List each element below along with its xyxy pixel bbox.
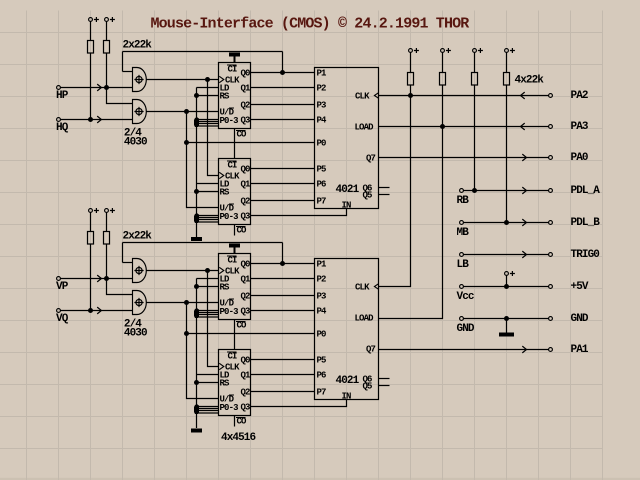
svg-text:P1: P1 — [317, 69, 328, 79]
wire P0 preset lower 4516 ch2 — [197, 406, 219, 408]
node Vcc connector circle — [460, 285, 464, 289]
svg-text:Q7: Q7 — [366, 154, 376, 164]
svg-text:CLK: CLK — [355, 92, 370, 102]
junction dot Q0 feedback ch2 — [280, 261, 285, 266]
wire LD/RS/P ground rail ch1 — [196, 88, 198, 238]
svg-text:P7: P7 — [317, 197, 327, 207]
wire RS lower 4516 ch1 — [197, 191, 219, 193]
wire LD lower 4516 ch1 — [197, 183, 219, 185]
svg-text:P2: P2 — [317, 275, 327, 285]
svg-text:4021: 4021 — [336, 375, 360, 387]
svg-text:Q7: Q7 — [366, 345, 376, 355]
resistor R3c 22k pull-up — [472, 73, 478, 86]
wire RS upper 4516 ch2 — [197, 286, 219, 288]
node +5V connector circle — [549, 285, 553, 289]
svg-text:CI: CI — [228, 65, 238, 75]
wire +5V supply stem — [506, 275, 508, 286]
wire TRIG0 net from LB — [463, 254, 548, 256]
junction dot U/D net ch1 — [184, 109, 189, 114]
wire Q0 upper 4516 to P1 ch2 — [251, 263, 315, 265]
wire LD upper 4516 ch2 — [197, 278, 219, 280]
junction dot RS1 ground rail — [194, 93, 199, 98]
wire supply2 stem ch1 — [106, 21, 108, 40]
wire GND net — [463, 318, 548, 320]
wire CO upper 4516 to CI lower ch1 — [234, 129, 236, 159]
bottom shade strip — [0, 478, 640, 480]
svg-text:IN: IN — [342, 200, 352, 210]
junction dot RS2 ground rail — [194, 189, 199, 194]
wire CLK net vertical to lower 4516 ch2 — [208, 271, 219, 367]
clock wedge CLK pin 4516 U2 — [219, 172, 224, 178]
junction dot RS4 ground rail — [194, 380, 199, 385]
svg-text:GND: GND — [457, 323, 475, 335]
node LB connector circle — [460, 253, 464, 257]
svg-text:Q2: Q2 — [241, 388, 251, 398]
wire 22k feedback net horizontal ch2 — [123, 242, 283, 244]
svg-text:P6: P6 — [317, 180, 327, 190]
wire Q6 stub 4021-2 — [379, 378, 390, 380]
svg-text:PA2: PA2 — [571, 90, 588, 102]
svg-text:Mouse-Interface (CMOS) © 24.2.: Mouse-Interface (CMOS) © 24.2.1991 THOR — [151, 16, 470, 33]
junction dot HP branch — [104, 85, 109, 90]
svg-text:RS: RS — [220, 92, 231, 102]
svg-text:P4: P4 — [317, 116, 328, 126]
svg-text:CI: CI — [228, 256, 238, 266]
wire Q1 upper 4516 to P2 ch2 — [251, 278, 315, 280]
wire CO stub lower 4516 ch1 — [234, 225, 236, 236]
resistor R2a 22k (VP pull-up) — [88, 232, 94, 245]
wire Q5 stub 4021-2 — [379, 385, 390, 387]
wire RS upper 4516 ch1 — [197, 95, 219, 97]
ground bar channel 1 — [191, 237, 202, 241]
wire Q3 upper 4516 to P4 ch2 — [251, 310, 315, 312]
wire PA3 net (4021-1 LOAD) — [379, 126, 549, 128]
svg-text:P3: P3 — [317, 101, 327, 111]
wire XOR gate1 output to CLK ch1 — [147, 79, 219, 81]
supply symbol +5V above R3c — [473, 48, 483, 53]
svg-text:4030: 4030 — [124, 137, 147, 149]
junction dot CLK net ch1 — [205, 77, 210, 82]
svg-text:RS: RS — [220, 188, 231, 198]
wire supply1 stem ch1 — [90, 21, 92, 40]
wire feedback drop to XOR gate1 input ch1 — [122, 52, 124, 72]
wire phase-A input line ch1 — [60, 87, 133, 89]
supply symbol +5V above R2b — [105, 208, 115, 213]
wire CO stub lower 4516 ch2 — [234, 416, 236, 427]
arrow on PA2 net (in) — [521, 92, 525, 99]
svg-text:+5V: +5V — [571, 281, 589, 293]
wire Q0 lower 4516 to P5 ch1 — [251, 168, 315, 170]
svg-text:P6: P6 — [317, 371, 327, 381]
arrow on PA1 net (out) — [522, 346, 526, 353]
wire XOR gate1 output to CLK ch2 — [147, 270, 219, 272]
svg-text:CLK: CLK — [355, 283, 370, 293]
resistor R2b 22k (VQ pull-up) — [104, 232, 110, 245]
XOR gate G1 (HP/HQ clock) (4030) — [133, 68, 147, 92]
svg-text:Vcc: Vcc — [457, 291, 474, 303]
junction dot U/D net ch2 — [184, 300, 189, 305]
wire CO upper 4516 to CI lower ch2 — [234, 320, 236, 350]
wire pull-up R3 to PDL_A — [474, 85, 476, 191]
wire Q1 lower 4516 to P6 ch1 — [251, 183, 315, 185]
supply symbol +5V above R1a — [89, 17, 99, 22]
arrow on PA3 net (in) — [521, 123, 525, 130]
resistor R1a 22k (HP pull-up) — [88, 41, 94, 54]
svg-text:Q3: Q3 — [241, 307, 251, 317]
arrow on HP input line — [97, 84, 101, 91]
supply symbol +5V above R1b — [105, 17, 115, 22]
junction dot RS3 ground rail — [194, 284, 199, 289]
node PA0 connector circle — [549, 156, 553, 160]
wire resistor R1a bottom to quadrature-B dot — [90, 53, 92, 120]
svg-text:P5: P5 — [317, 356, 327, 366]
wire supply1 stem ch2 — [90, 212, 92, 231]
svg-text:CO: CO — [237, 226, 248, 236]
wire supply stem pull-up x=506.5 — [506, 52, 508, 72]
wire XOR gate1 top input ch2 — [123, 262, 134, 264]
CI supply flag above U1 — [229, 53, 240, 57]
P0-3 bundle blob U1 — [194, 118, 199, 128]
svg-text:Q0: Q0 — [241, 260, 251, 270]
wire Q3 lower 4516 to IN of 4021 ch2 — [251, 400, 347, 407]
svg-text:P7: P7 — [317, 388, 327, 398]
wire pull-up R1 / 4021-2 CLK net — [379, 85, 411, 287]
svg-text:P0-3: P0-3 — [220, 403, 239, 413]
svg-text:Q0: Q0 — [241, 69, 251, 79]
svg-text:Q2: Q2 — [241, 197, 251, 207]
overlines for CI/CO/U-D labels — [227, 65, 246, 418]
wire Q2 upper 4516 to P3 ch1 — [251, 104, 315, 106]
junction dot PDL_B/R pull-up — [504, 220, 509, 225]
svg-text:2x22k: 2x22k — [123, 231, 153, 243]
wire Q3 upper 4516 to P4 ch1 — [251, 119, 315, 121]
wire resistor R2a bottom to quadrature-B dot — [90, 244, 92, 311]
counter U2 4516 (lower, channel 1) — [219, 159, 251, 225]
svg-text:Q2: Q2 — [241, 292, 251, 302]
svg-text:RS: RS — [220, 283, 231, 293]
wire CLK net vertical to lower 4516 ch1 — [208, 80, 219, 176]
svg-text:P3: P3 — [317, 292, 327, 302]
wire Q2 upper 4516 to P3 ch2 — [251, 295, 315, 297]
svg-text:LOAD: LOAD — [355, 123, 375, 133]
junction dot HQ pull-up — [88, 117, 93, 122]
svg-text:RB: RB — [457, 195, 470, 207]
P0-3 bundle blob U3 — [194, 309, 199, 319]
svg-text:Q1: Q1 — [241, 180, 252, 190]
wire feedback drop to Q0 net ch2 — [282, 243, 284, 264]
svg-text:P2: P2 — [317, 84, 327, 94]
svg-text:CO: CO — [237, 130, 248, 140]
clock wedge CLK pin 4021 U5 — [374, 93, 378, 98]
wire pull-up R4 to PDL_B — [506, 85, 508, 223]
wire phase-A input line ch2 — [60, 278, 133, 280]
node PDL_B connector circle — [549, 221, 553, 225]
svg-text:CI: CI — [228, 352, 238, 362]
node MB connector circle — [460, 221, 464, 225]
node VP connector circle — [57, 277, 61, 281]
svg-text:VQ: VQ — [56, 313, 69, 325]
wire branch A to XOR gate2 input ch1 — [107, 88, 134, 104]
svg-text:LB: LB — [457, 259, 470, 271]
P0-3 bundle blob U2 — [194, 214, 199, 224]
svg-text:Q1: Q1 — [241, 275, 252, 285]
CI supply flag above U3 — [229, 244, 240, 248]
svg-text:HP: HP — [56, 90, 69, 102]
svg-text:Q5: Q5 — [363, 381, 373, 391]
clock wedge CLK pin 4516 U1 — [219, 76, 224, 82]
node GND connector circle — [460, 317, 464, 321]
svg-text:PA0: PA0 — [571, 152, 588, 164]
svg-text:PDL_B: PDL_B — [571, 217, 601, 229]
ground bar channel 2 — [191, 429, 202, 433]
arrow on HQ input line — [97, 116, 101, 123]
arrow on PDL_A net (out) — [522, 187, 526, 194]
wire P0 preset upper 4516 ch1 — [197, 119, 219, 121]
svg-text:P0-3: P0-3 — [220, 212, 239, 222]
svg-text:LOAD: LOAD — [355, 314, 375, 324]
svg-text:P1: P1 — [317, 260, 328, 270]
wire supply2 stem ch2 — [106, 212, 108, 231]
wire resistor R1b bottom to quadrature-A dot — [106, 53, 108, 88]
svg-text:HQ: HQ — [56, 122, 69, 134]
svg-text:RS: RS — [220, 379, 231, 389]
wire Q2 lower 4516 to P7 ch1 — [251, 200, 315, 202]
supply symbol +5V above R3a — [409, 48, 419, 53]
wire supply stem pull-up x=410.5 — [410, 52, 412, 72]
node PA3 connector circle — [549, 125, 553, 129]
wire feedback drop to Q0 net ch1 — [282, 52, 284, 73]
svg-text:MB: MB — [457, 227, 470, 239]
wire Q0 lower 4516 to P5 ch2 — [251, 359, 315, 361]
wire Q1 lower 4516 to P6 ch2 — [251, 374, 315, 376]
svg-text:P0-3: P0-3 — [220, 307, 239, 317]
arrow on TRIG0 net (out) — [522, 251, 526, 258]
counter U4 4516 (lower, channel 2) — [219, 350, 251, 416]
svg-text:TRIG0: TRIG0 — [571, 249, 600, 261]
shift register U6 4021 (channel 2) — [315, 259, 379, 400]
supply symbol +5V above R2a — [89, 208, 99, 213]
wire 22k feedback net horizontal ch1 — [123, 51, 283, 53]
resistor R3a 22k pull-up — [408, 73, 414, 86]
wire PDL_B net from MB — [463, 222, 548, 224]
node TRIG0 connector circle — [549, 253, 553, 257]
XOR gate G2 (HP/HQ direction) (4030) — [133, 100, 147, 124]
clock wedge CLK pin 4021 U6 — [374, 284, 378, 289]
junction dot PA2/R pull-up — [408, 93, 413, 98]
wire GND symbol stem — [506, 319, 508, 333]
junction dot CLK net ch2 — [205, 268, 210, 273]
svg-text:Q1: Q1 — [241, 84, 252, 94]
junction dot P0 tap ch2 — [184, 331, 189, 336]
wire phase-B input line ch1 — [60, 119, 133, 121]
resistor R3b 22k pull-up — [440, 73, 446, 86]
wire PDL_A net from RB — [463, 190, 548, 192]
svg-text:CO: CO — [237, 321, 248, 331]
supply symbol +5V above R3b — [441, 48, 451, 53]
wire U/D net to P0 of 4021 ch1 — [187, 142, 315, 144]
P0-3 bundle blob U4 — [194, 405, 199, 415]
arrow on VP input line — [97, 275, 101, 282]
svg-text:Q2: Q2 — [241, 101, 251, 111]
svg-text:4x4516: 4x4516 — [221, 432, 256, 444]
svg-text:IN: IN — [342, 391, 352, 401]
wire P0 preset lower 4516 ch1 — [197, 215, 219, 217]
node PDL_A connector circle — [549, 189, 553, 193]
junction dot GND tap — [504, 316, 509, 321]
node HP connector circle — [57, 86, 61, 90]
junction dot Q0 feedback ch1 — [280, 70, 285, 75]
svg-text:2x22k: 2x22k — [123, 40, 153, 52]
svg-text:Q0: Q0 — [241, 165, 251, 175]
node VQ connector circle — [57, 309, 61, 313]
node HQ connector circle — [57, 118, 61, 122]
wire LD lower 4516 ch2 — [197, 374, 219, 376]
arrow on VQ input line — [97, 307, 101, 314]
svg-text:4x22k: 4x22k — [515, 75, 545, 87]
wire XOR gate1 top input ch1 — [123, 71, 134, 73]
wire Q5 stub 4021-1 — [379, 194, 390, 196]
wire feedback drop to XOR gate1 input ch2 — [122, 243, 124, 263]
node GND connector circle — [549, 317, 553, 321]
svg-text:Q3: Q3 — [241, 212, 251, 222]
ground symbol right side — [499, 333, 514, 337]
clock wedge CLK pin 4516 U3 — [219, 267, 224, 273]
wire PA2 net (4021-1 CLK) — [379, 95, 549, 97]
svg-text:VP: VP — [56, 281, 69, 293]
wire RS lower 4516 ch2 — [197, 382, 219, 384]
junction dot VQ pull-up — [88, 308, 93, 313]
svg-text:PA3: PA3 — [571, 121, 589, 133]
wire PA1 net (4021-2 Q7) — [379, 349, 549, 351]
shift register U5 4021 (channel 1) — [315, 68, 379, 209]
svg-text:Q3: Q3 — [241, 116, 251, 126]
wire LD/RS/P ground rail ch2 — [196, 279, 198, 429]
svg-text:GND: GND — [571, 313, 589, 325]
wire U/D net vertical ch2 — [187, 303, 219, 399]
arrow on PA0 net (out) — [522, 154, 526, 161]
svg-text:Q1: Q1 — [241, 371, 252, 381]
svg-text:4021: 4021 — [336, 184, 360, 196]
svg-text:P0: P0 — [317, 139, 327, 149]
counter U1 4516 (top, channel 1) — [219, 63, 251, 129]
wire PA0 net (4021-1 Q7) — [379, 157, 549, 159]
svg-text:Q0: Q0 — [241, 356, 251, 366]
svg-text:CO: CO — [237, 417, 248, 427]
svg-text:Q5: Q5 — [363, 190, 373, 200]
clock wedge CLK pin 4516 U4 — [219, 363, 224, 369]
svg-text:P0: P0 — [317, 330, 327, 340]
svg-text:P5: P5 — [317, 165, 327, 175]
junction dot VP branch — [104, 276, 109, 281]
svg-text:P0-3: P0-3 — [220, 116, 239, 126]
svg-text:4030: 4030 — [124, 328, 147, 340]
junction dot P0 tap ch1 — [184, 140, 189, 145]
wire U/D net vertical ch1 — [187, 112, 219, 208]
wire Q0 upper 4516 to P1 ch1 — [251, 72, 315, 74]
svg-text:CI: CI — [228, 161, 238, 171]
wire pull-up R2 / 4021-2 LOAD net — [379, 85, 443, 319]
wire U/D net to P0 of 4021 ch2 — [187, 333, 315, 335]
wire LD upper 4516 ch1 — [197, 87, 219, 89]
svg-text:PA1: PA1 — [571, 344, 589, 356]
node RB connector circle — [460, 189, 464, 193]
supply symbol +5V above R3d — [505, 48, 515, 53]
wire XOR gate2 output to U/D ch2 — [147, 302, 219, 304]
wire Q1 upper 4516 to P2 ch1 — [251, 87, 315, 89]
junction dot PDL_A/R pull-up — [472, 188, 477, 193]
node PA2 connector circle — [549, 94, 553, 98]
node PA1 connector circle — [549, 348, 553, 352]
wire supply stem pull-up x=474.5 — [474, 52, 476, 72]
wire Q3 lower 4516 to IN of 4021 ch1 — [251, 209, 347, 216]
counter U3 4516 (top, channel 2) — [219, 254, 251, 320]
wire supply stem pull-up x=442.5 — [442, 52, 444, 72]
wire Q6 stub 4021-1 — [379, 187, 390, 189]
svg-text:PDL_A: PDL_A — [571, 185, 601, 197]
wire resistor R2b bottom to quadrature-A dot — [106, 244, 108, 279]
svg-text:P4: P4 — [317, 307, 328, 317]
wire phase-B input line ch2 — [60, 310, 133, 312]
resistor R1b 22k (HQ pull-up) — [104, 41, 110, 54]
XOR gate G4 (VP/VQ direction) (4030) — [133, 291, 147, 315]
svg-text:Q3: Q3 — [241, 403, 251, 413]
arrow on PDL_B net (out) — [522, 219, 526, 226]
wire P0 preset upper 4516 ch2 — [197, 310, 219, 312]
XOR gate G3 (VP/VQ clock) (4030) — [133, 259, 147, 283]
wire XOR gate2 output to U/D ch1 — [147, 111, 219, 113]
junction dot PA3/R pull-up — [440, 124, 445, 129]
wire Q2 lower 4516 to P7 ch2 — [251, 391, 315, 393]
wire +5V net from Vcc — [463, 286, 548, 288]
resistor R3d 22k pull-up — [504, 73, 510, 86]
wire branch A to XOR gate2 input ch2 — [107, 279, 134, 295]
supply symbol +5V on +5V net — [505, 271, 515, 276]
junction dot +5V supply tap — [504, 284, 509, 289]
